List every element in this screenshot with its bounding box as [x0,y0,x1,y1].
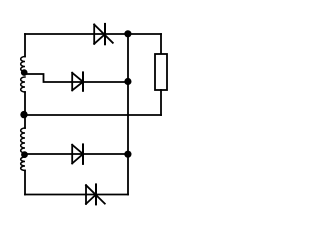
wire tap1 jog [25,74,72,82]
node rail mid [124,78,131,85]
node rail top [124,30,131,37]
wire top horizontal [25,33,161,35]
inductor L1 lower half [21,77,25,92]
inductor L1 upper half [21,57,25,72]
inductor L2 lower half [21,157,25,171]
wire diode2 to rail [72,81,128,83]
diode D4 shorted [86,184,105,204]
wire resistor top stub [160,34,162,54]
wire tap2 horizontal [25,153,128,155]
resistor R load [155,54,167,90]
inductor L2 upper half [21,128,25,153]
node tap2 [21,151,28,158]
diode D1 shorted [94,24,113,44]
wire left rail lower [24,171,26,195]
wire left rail upper [24,34,26,57]
diode D3 [72,144,83,164]
node tap1 [21,69,28,76]
wire left rail middle [24,92,26,128]
wire middle rail [127,34,129,195]
wire bottom horizontal [25,194,128,196]
wire load return [25,114,161,116]
diode D2 [72,72,83,90]
wire resistor bottom stub [160,90,162,115]
node rail low [124,151,131,158]
node left center [20,111,27,118]
